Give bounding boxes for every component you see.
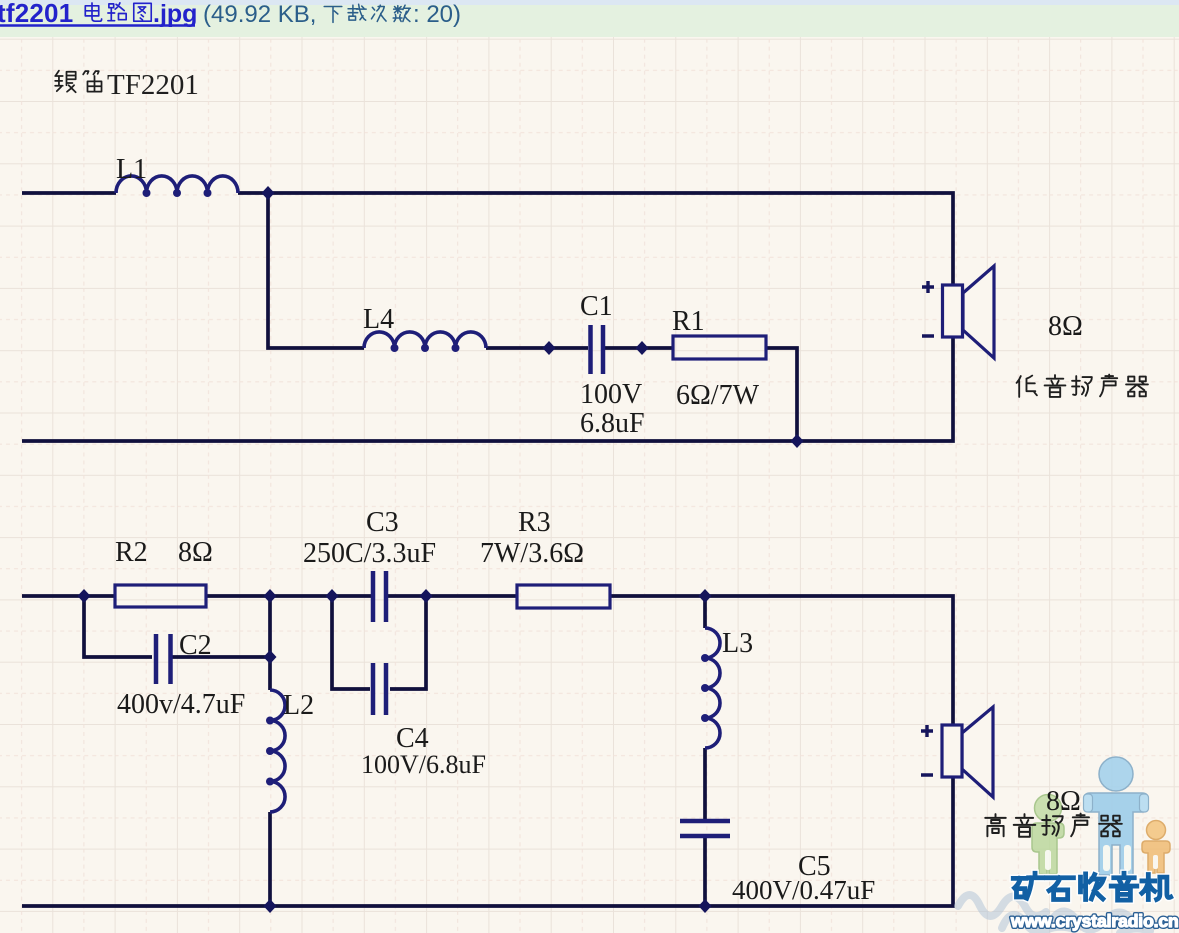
svg-text:C1: C1 [580,291,613,322]
svg-text:L1: L1 [116,154,147,185]
svg-text:.jpg: .jpg [153,0,197,28]
svg-text:R2: R2 [115,537,148,568]
svg-text:www.crystalradio.cn: www.crystalradio.cn [1010,911,1179,931]
svg-text:8Ω: 8Ω [1046,786,1081,817]
svg-text:7W/3.6Ω: 7W/3.6Ω [480,538,584,569]
svg-text:250C/3.3uF: 250C/3.3uF [303,538,436,569]
svg-text:C3: C3 [366,507,399,538]
svg-text:R1: R1 [672,306,705,337]
svg-text:C2: C2 [179,630,212,661]
svg-text:6.8uF: 6.8uF [580,408,645,439]
svg-text:tf2201: tf2201 [0,0,73,28]
svg-text:400v/4.7uF: 400v/4.7uF [117,689,245,720]
svg-text:R3: R3 [518,507,551,538]
svg-text:L3: L3 [722,628,753,659]
svg-text:8Ω: 8Ω [178,537,213,568]
svg-text:(49.92 KB,: (49.92 KB, [203,1,316,28]
svg-text:8Ω: 8Ω [1048,311,1083,342]
svg-text:: 20): : 20) [413,1,461,28]
svg-text:400V/0.47uF: 400V/0.47uF [732,875,875,905]
svg-text:L4: L4 [363,304,394,335]
svg-text:100V/6.8uF: 100V/6.8uF [361,750,486,779]
svg-text:100V: 100V [580,379,642,410]
svg-text:L2: L2 [283,690,314,721]
svg-text:6Ω/7W: 6Ω/7W [676,380,760,411]
svg-text:TF2201: TF2201 [107,69,199,101]
